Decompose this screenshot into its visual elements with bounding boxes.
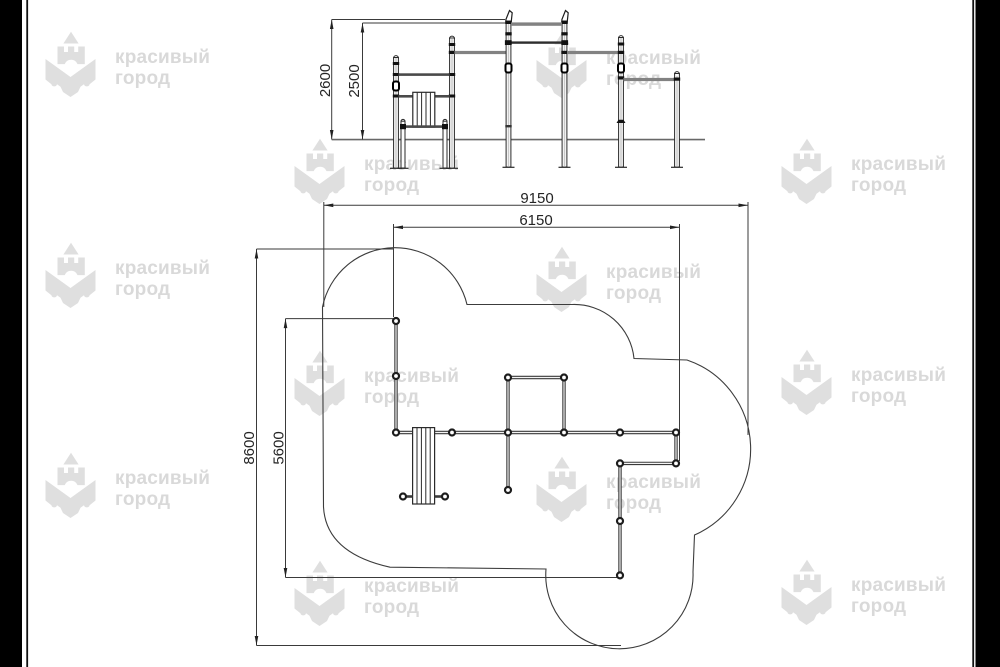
node stub end <box>505 487 511 493</box>
wm row6 colB <box>295 561 460 626</box>
gray bar B (high bar) <box>511 22 562 25</box>
wm row2 colB <box>295 139 460 204</box>
gray bar C <box>567 51 621 54</box>
pipe step right <box>674 433 677 464</box>
dimension 6150 arrow left <box>394 226 404 230</box>
node square TL <box>505 375 511 381</box>
pipe left rail <box>394 321 397 433</box>
node rail mid <box>393 373 399 379</box>
ground line <box>332 139 705 141</box>
dimension 9150 line <box>324 204 748 206</box>
pipe square top <box>508 376 564 379</box>
post P4 <box>671 72 683 168</box>
pipe white core highlights <box>396 322 676 574</box>
pipe step horizontal <box>620 462 676 465</box>
node circles <box>393 318 679 578</box>
low bar <box>403 125 445 128</box>
wm row4 colD <box>782 350 947 415</box>
wm row5 colA <box>46 453 211 518</box>
dimension 5600 arrow down <box>284 568 288 578</box>
dimension 9150 arrow right <box>739 204 749 208</box>
node panel stub L <box>400 494 406 500</box>
slat panel plan <box>403 428 445 504</box>
dimension 2500 extension line top <box>363 22 509 24</box>
node bottom 564 <box>561 430 567 436</box>
wm row3 colA <box>46 243 211 308</box>
dimension 2600 arrow down <box>330 130 334 140</box>
node rail top <box>393 318 399 324</box>
dimension 2500 line <box>362 23 364 140</box>
dimension 2600 label <box>317 64 334 97</box>
dimension 2600 arrow up <box>330 20 334 30</box>
low bar clamp right <box>442 124 448 129</box>
svg-text:5600: 5600 <box>271 431 288 464</box>
6150 extension line right <box>679 224 681 461</box>
node step R <box>673 460 679 466</box>
dimension 2500 arrow down <box>361 130 365 140</box>
dimension 5600 arrow up <box>284 319 288 329</box>
wm row5 colC <box>537 457 702 522</box>
6150 extension line left <box>393 224 395 317</box>
8600 extension line top <box>257 248 395 250</box>
node square TR <box>561 375 567 381</box>
wm row3 colC <box>537 247 702 312</box>
low bar clamp left <box>400 124 406 129</box>
dimension 8600 arrow up <box>255 249 259 259</box>
pipe square right <box>562 378 565 433</box>
ladder rung bar 2 <box>398 95 449 98</box>
dimension 5600 label <box>271 431 288 464</box>
black page band left <box>0 0 22 667</box>
node lower end <box>617 572 623 578</box>
node bottom 508 <box>505 430 511 436</box>
post A (ladder left) <box>390 56 402 169</box>
5600 extension line top <box>286 318 394 320</box>
dimension 2600 line <box>331 20 333 140</box>
wm row2 colD <box>782 139 947 204</box>
pipe lower rail <box>618 463 621 575</box>
node rail corner <box>393 430 399 436</box>
dimension 2600 extension line top <box>332 19 505 21</box>
pipe bottom rail <box>396 431 676 434</box>
page border line right <box>972 0 974 667</box>
middle dark bar between P1 P2 <box>506 41 567 43</box>
slat panel elevation <box>413 92 435 127</box>
gray bar D <box>623 78 674 81</box>
dimension 6150 arrow right <box>670 226 680 230</box>
svg-text:2500: 2500 <box>346 64 363 97</box>
wm row4 colB <box>295 351 460 416</box>
wm row1 colC <box>537 33 702 98</box>
dimension 6150 label <box>519 212 552 229</box>
svg-text:2600: 2600 <box>317 64 334 97</box>
gray bar A <box>454 51 506 54</box>
small post C <box>398 119 409 168</box>
5600 extension line bottom <box>286 577 619 579</box>
post P3 <box>615 36 627 168</box>
wm row1 colA <box>46 32 211 97</box>
node bottom 620 <box>617 430 623 436</box>
post B (ladder right / bay post) <box>446 36 458 168</box>
panel stub left <box>403 495 413 498</box>
dimension 6150 line <box>394 226 680 228</box>
node bottom 452 <box>449 430 455 436</box>
pipe stub down <box>506 433 509 491</box>
wm row6 colD <box>782 560 947 625</box>
safety zone cloud boundary <box>323 248 751 649</box>
panel stub right <box>435 495 445 498</box>
svg-text:6150: 6150 <box>519 212 552 229</box>
dimension 8600 label <box>241 431 258 464</box>
pipe square left <box>506 378 509 433</box>
svg-text:8600: 8600 <box>241 431 258 464</box>
node lower mid <box>617 518 623 524</box>
8600 extension line bottom <box>257 645 622 647</box>
middle bar clamp right <box>561 40 568 45</box>
node panel stub R <box>442 494 448 500</box>
post P2 (tall bent) <box>559 11 571 168</box>
dimension 9150 arrow left <box>324 204 334 208</box>
dimension 5600 line <box>285 319 287 578</box>
small post D <box>440 119 451 168</box>
post P1 (tall bent) <box>503 11 515 168</box>
svg-text:9150: 9150 <box>520 190 553 207</box>
middle bar clamp left <box>505 40 512 45</box>
black page band right <box>976 0 1000 667</box>
node step L <box>617 460 623 466</box>
dimension 2500 label <box>346 64 363 97</box>
dimension 9150 label <box>520 190 553 207</box>
9150 extension line right <box>747 202 749 435</box>
equipment pipes (plan) <box>396 321 676 575</box>
node bottom 676 <box>673 430 679 436</box>
ladder rung bar 1 <box>398 73 449 76</box>
page border line left <box>26 0 28 667</box>
dimension 2500 arrow up <box>361 23 365 33</box>
9150 extension line left <box>323 202 325 307</box>
dimension 8600 arrow down <box>255 636 259 646</box>
dimension 8600 line <box>256 249 258 646</box>
